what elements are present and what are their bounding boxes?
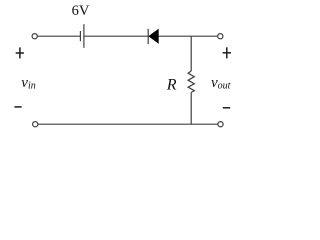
battery B1 short plate	[79, 31, 81, 41]
diode D1 cathode bar	[147, 29, 149, 44]
label + right	[226, 47, 228, 58]
diode D1 triangle	[149, 29, 159, 43]
svg-text:6V: 6V	[72, 3, 90, 19]
wire battery to diode	[84, 35, 148, 37]
terminal bottom-right	[218, 122, 223, 127]
svg-text:R: R	[166, 76, 177, 93]
svg-text:vout: vout	[211, 75, 231, 92]
terminal bottom-left	[33, 122, 38, 127]
wire diode to top-right terminal	[158, 35, 217, 37]
label + left	[19, 47, 21, 58]
wire resistor to bottom wire	[190, 92, 192, 124]
wire bottom	[38, 123, 218, 125]
wire top-left (terminal to battery)	[37, 35, 80, 37]
battery B1 tall plate	[83, 24, 85, 48]
resistor R zigzag	[188, 71, 194, 92]
terminal top-left	[32, 34, 37, 39]
label - left	[14, 106, 21, 108]
label - right	[223, 107, 230, 109]
terminal top-right	[218, 34, 223, 39]
svg-text:vin: vin	[21, 75, 35, 92]
node junction branch	[190, 36, 192, 71]
